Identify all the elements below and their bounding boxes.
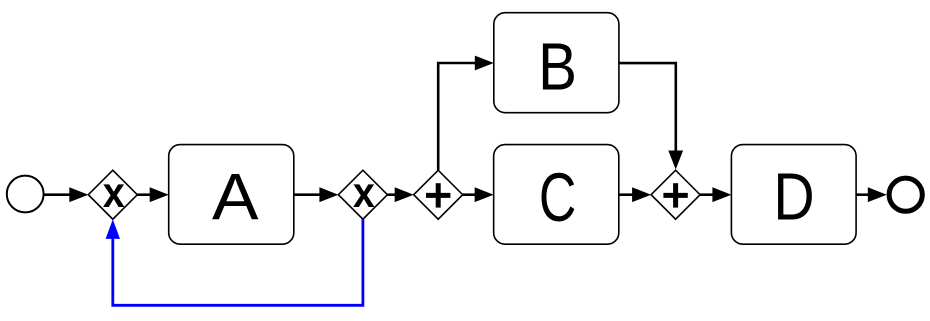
task C [494, 145, 619, 245]
flow G3 to task C [463, 187, 494, 202]
flow G3 up to task B [438, 56, 494, 171]
flow start to gateway G1 [44, 187, 89, 202]
task D [731, 145, 856, 245]
svg-text:x: x [103, 169, 125, 217]
XOR gateway G1 [88, 169, 137, 220]
svg-text:C: C [539, 159, 576, 236]
start event [7, 176, 44, 213]
flow C to gateway G4 [619, 187, 651, 202]
flow D to end event [856, 187, 887, 202]
task B [494, 13, 619, 113]
flow G2 to gateway G3 [387, 187, 413, 202]
svg-text:D: D [773, 161, 814, 235]
flow B to gateway G4 [619, 63, 683, 169]
task A [169, 145, 294, 245]
XOR gateway G2 [338, 169, 387, 220]
flow A to gateway G2 [294, 187, 339, 202]
flow G1 to task A [137, 187, 168, 202]
end event [889, 178, 922, 211]
AND gateway G4 [651, 170, 700, 219]
flow G4 to task D [700, 187, 731, 202]
loop flow G2 back to G1 (blue) [106, 219, 363, 305]
svg-text:x: x [353, 169, 375, 217]
svg-text:B: B [538, 29, 577, 104]
AND gateway G3 [414, 170, 463, 219]
svg-text:A: A [212, 161, 259, 234]
